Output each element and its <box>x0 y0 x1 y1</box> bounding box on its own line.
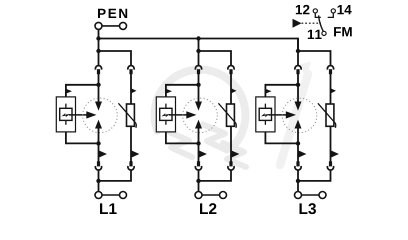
wire monitoring device return (block 2) <box>166 132 199 144</box>
monitoring device box (block 2) <box>156 97 175 132</box>
terminal L3 left <box>295 192 302 199</box>
terminal L2 left <box>195 192 202 199</box>
trigger arrow head (block 1) <box>86 111 96 118</box>
terminal PEN left <box>95 22 102 29</box>
node junction N3 branch <box>296 49 300 53</box>
trigger arrow shaft (block 1) <box>69 114 87 116</box>
plug-in contact bottom right (block 3) <box>327 161 333 170</box>
surge bolt symbol (block 3) <box>261 113 270 117</box>
node junction monitor tap (block 2) <box>196 83 200 87</box>
plug-in contact top left (block 2) <box>195 66 201 75</box>
terminal bridge L3 <box>302 194 320 196</box>
electrode stub lower (block 3) <box>264 120 266 124</box>
disconnector flag monitor lead (block 2) <box>166 89 172 94</box>
wire bottom left drop (block 3) <box>297 170 299 191</box>
wire N1 branch to varistor branch <box>99 51 132 65</box>
label L2 <box>200 203 216 214</box>
electrode stub upper (block 1) <box>65 104 67 109</box>
surge bolt symbol (block 1) <box>62 113 71 117</box>
varistor R2 diagonal <box>218 103 236 128</box>
label 11 <box>308 30 322 39</box>
wire spark-gap branch lower (block 3) <box>297 128 299 162</box>
node junction monitor return (block 2) <box>196 141 200 145</box>
disconnector flag varistor (block 2) <box>231 88 237 93</box>
node junction monitor return (block 1) <box>96 141 100 145</box>
wire L2 spark-gap branch upper <box>198 39 200 66</box>
wire varistor branch upper (block 2) <box>230 74 232 105</box>
disconnector flag lower right (block 1) <box>131 150 139 158</box>
plug-in contact top right (block 3) <box>327 66 333 75</box>
trigger arrow head (block 2) <box>186 111 196 118</box>
wire L3 spark-gap branch upper <box>297 39 299 66</box>
node junction bottom (block 3) <box>296 179 300 183</box>
electrode stub lower (block 1) <box>65 120 67 124</box>
disconnector flag monitor lead (block 1) <box>66 89 72 94</box>
label 12 <box>296 5 310 14</box>
wire spark-gap branch (block 1) <box>98 74 100 103</box>
plug-in contact bottom right (block 2) <box>228 161 234 170</box>
wire bottom right join (block 2) <box>199 170 232 181</box>
wire varistor branch upper (block 1) <box>130 74 132 105</box>
wire varistor branch lower (block 2) <box>230 126 232 161</box>
spark gap electrode lower (block 2) <box>195 120 202 129</box>
trigger arrow shaft (block 3) <box>268 114 286 116</box>
node junction bus block1 <box>96 36 100 40</box>
FM actuator arrow <box>293 19 302 28</box>
wire spark-gap branch (block 2) <box>198 74 200 103</box>
node junction monitor tap (block 3) <box>296 83 300 87</box>
node junction bus block2 <box>196 36 200 40</box>
trigger arrow head (block 3) <box>286 111 296 118</box>
wire PEN drop <box>98 29 100 39</box>
wire bottom right join (block 1) <box>99 170 132 181</box>
disconnector flag lower left (block 1) <box>99 150 107 158</box>
wire bottom right join (block 3) <box>298 170 331 181</box>
terminal bridge L1 <box>102 194 120 196</box>
disconnector flag monitor lead (block 3) <box>265 89 271 94</box>
trigger arrow shaft (block 2) <box>169 114 187 116</box>
spark gap electrode upper (block 2) <box>195 102 202 111</box>
surge bolt symbol (block 2) <box>162 113 171 117</box>
plug-in contact bottom left (block 2) <box>195 161 201 170</box>
varistor R2 body <box>227 104 235 126</box>
spark gap envelope circle (block 3) <box>282 98 317 133</box>
watermark <box>154 62 311 167</box>
FM switch arm <box>319 15 324 31</box>
FM contact 12 pin <box>313 9 321 18</box>
node junction bottom (block 2) <box>196 179 200 183</box>
node junction monitor return (block 3) <box>296 141 300 145</box>
label 14 <box>338 5 352 14</box>
wire N2 branch to varistor branch <box>199 51 232 65</box>
terminal bridge PEN <box>102 25 120 27</box>
monitoring device inner element (block 2) <box>160 108 172 120</box>
disconnector flag varistor (block 3) <box>331 88 337 93</box>
node junction monitor tap (block 1) <box>96 83 100 87</box>
plug-in contact bottom left (block 3) <box>295 161 301 170</box>
monitoring device inner element (block 3) <box>259 108 271 120</box>
terminal L1 right <box>120 192 127 199</box>
wire varistor branch upper (block 3) <box>330 74 332 105</box>
varistor R3 body <box>326 104 334 126</box>
terminal L1 left <box>95 192 102 199</box>
wire bottom left drop (block 2) <box>198 170 200 191</box>
plug-in contact bottom right (block 1) <box>128 161 134 170</box>
electrode stub upper (block 3) <box>264 104 266 109</box>
node junction N2 branch <box>196 49 200 53</box>
label FM <box>334 27 352 36</box>
wire monitoring device return (block 1) <box>66 132 99 144</box>
wire spark-gap branch lower (block 2) <box>198 128 200 162</box>
disconnector flag lower left (block 3) <box>298 150 306 158</box>
wire spark-gap branch lower (block 1) <box>98 128 100 162</box>
wire L1 spark-gap branch upper <box>98 39 100 66</box>
plug-in contact top right (block 1) <box>128 66 134 75</box>
spark gap envelope circle (block 2) <box>183 98 218 133</box>
node junction N1 branch <box>96 49 100 53</box>
spark gap electrode lower (block 1) <box>95 120 102 129</box>
wire spark-gap branch (block 3) <box>297 74 299 103</box>
terminal L2 right <box>220 192 227 199</box>
FM contact 14 pin <box>328 9 336 18</box>
spark gap electrode upper (block 3) <box>295 102 302 111</box>
wire to monitoring device (block 2) <box>166 85 199 97</box>
disconnector flag lower right (block 2) <box>231 150 239 158</box>
label PEN <box>98 9 127 18</box>
electrode stub upper (block 2) <box>165 104 167 109</box>
wire bottom left drop (block 1) <box>98 170 100 191</box>
monitoring device box (block 3) <box>256 97 275 132</box>
plug-in contact bottom left (block 1) <box>95 161 101 170</box>
terminal PEN right <box>120 22 127 29</box>
plug-in contact top left (block 3) <box>295 66 301 75</box>
node junction bottom (block 1) <box>96 179 100 183</box>
wire monitoring device return (block 3) <box>265 132 298 144</box>
electrode stub lower (block 2) <box>165 120 167 124</box>
disconnector flag varistor (block 1) <box>131 88 137 93</box>
wire to monitoring device (block 1) <box>66 85 99 97</box>
monitoring device inner element (block 1) <box>60 108 72 120</box>
label L3 <box>299 203 315 214</box>
disconnector flag lower right (block 3) <box>331 150 339 158</box>
terminal L3 right <box>319 192 326 199</box>
monitoring device box (block 1) <box>56 97 75 132</box>
spark gap electrode lower (block 3) <box>295 120 302 129</box>
varistor R1 diagonal <box>118 103 136 128</box>
FM actuator dashed link <box>302 22 322 24</box>
wire varistor branch lower (block 1) <box>130 126 132 161</box>
plug-in contact top right (block 2) <box>228 66 234 75</box>
disconnector flag lower left (block 2) <box>199 150 207 158</box>
wire PEN bus <box>99 39 299 52</box>
wire varistor branch lower (block 3) <box>330 126 332 161</box>
FM contact 11 pin <box>322 31 326 35</box>
varistor R1 body <box>127 104 135 126</box>
wire N3 branch to varistor branch <box>298 51 331 65</box>
spark gap electrode upper (block 1) <box>95 102 102 111</box>
label L1 <box>100 203 117 214</box>
varistor R3 diagonal <box>318 103 336 128</box>
wire to monitoring device (block 3) <box>265 85 298 97</box>
terminal bridge L2 <box>202 194 220 196</box>
plug-in contact top left (block 1) <box>95 66 101 75</box>
spark gap envelope circle (block 1) <box>83 98 118 133</box>
